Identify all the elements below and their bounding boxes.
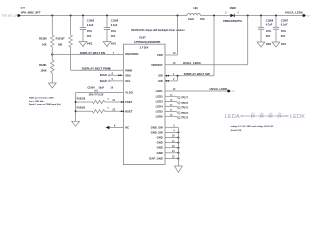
svg-text:LED5: LED5	[156, 110, 164, 114]
svg-text:25V: 25V	[281, 35, 286, 38]
note LED voltages	[231, 125, 274, 132]
svg-text:Spark 1 same as PWM input (Hz): Spark 1 same as PWM input (Hz)	[29, 103, 61, 106]
svg-text:LED6: LED6	[156, 114, 164, 118]
svg-text:LED2: LED2	[156, 94, 164, 98]
port VPH_MISC_BFT input	[2, 13, 21, 17]
svg-text:EN/VDDIO: EN/VDDIO	[125, 52, 139, 56]
svg-text:20mA / LED: 20mA / LED	[231, 129, 242, 132]
capacitor C1958 4.7uF	[258, 16, 274, 43]
svg-text:VLDO: VLDO	[125, 91, 134, 95]
svg-text:C1903: C1903	[87, 20, 95, 23]
svg-text:DISPLAY BKLT EN: DISPLAY BKLT EN	[80, 51, 105, 55]
wire R1281 to ground	[51, 73, 53, 83]
capacitor C1903 2.2uF	[80, 16, 95, 42]
svg-text:C1954: C1954	[87, 87, 95, 90]
junction rail x177 VDD	[177, 15, 179, 17]
test point TP173 on pin 18	[165, 115, 189, 120]
test point TP175 on pin 15	[165, 105, 189, 110]
svg-text:10%: 10%	[281, 30, 287, 33]
svg-text:LP55342Q-ES6NOPB: LP55342Q-ES6NOPB	[134, 40, 160, 44]
resistor R10158 0 ohm FSET	[76, 97, 124, 103]
svg-text:DISPLAY BKLT PWM: DISPLAY BKLT PWM	[82, 67, 111, 71]
junction FSET rail	[75, 101, 77, 103]
svg-text:10K: 10K	[58, 43, 63, 47]
svg-text:16V: 16V	[87, 35, 92, 38]
svg-text:0.1uF: 0.1uF	[281, 24, 288, 27]
svg-text:DISPLAY BKLT SW: DISPLAY BKLT SW	[184, 72, 210, 76]
ground under C1296	[103, 42, 111, 47]
svg-text:C1296: C1296	[111, 20, 119, 23]
ground under C1958	[257, 42, 265, 47]
svg-text:10uF: 10uF	[98, 87, 104, 90]
svg-text:4.2V: 4.2V	[21, 6, 26, 9]
svg-text:TP175: TP175	[181, 108, 188, 110]
junction GND rail y142.6	[177, 142, 179, 144]
svg-text:VBOOST: VBOOST	[151, 63, 163, 67]
svg-text:SDA: SDA	[125, 73, 131, 77]
junction rail x83	[82, 15, 84, 17]
svg-text:R10165: R10165	[77, 107, 86, 110]
capacitor C1954 10uF on VLDO	[76, 87, 124, 97]
wire DISPLAY_BKLT_EN	[52, 51, 123, 55]
svg-text:TP174: TP174	[181, 112, 188, 115]
svg-text:100K: 100K	[41, 69, 47, 73]
wire GND pin 4	[165, 130, 178, 133]
svg-text:FSET: FSET	[125, 100, 132, 104]
net short SH12C SDA	[100, 73, 124, 77]
svg-text:LEDA: LEDA	[225, 114, 240, 120]
svg-text:PMEG4005ETPH: PMEG4005ETPH	[223, 20, 242, 23]
LED D1 of string	[250, 113, 255, 118]
test point TP174 on pin 17	[165, 110, 189, 115]
wire GND pin 24	[165, 150, 178, 153]
svg-text:16V: 16V	[111, 35, 116, 38]
junction GND rail y147.7	[177, 147, 179, 149]
svg-text:2.2uF: 2.2uF	[87, 24, 94, 27]
svg-text:R10158: R10158	[77, 97, 86, 100]
svg-text:25V: 25V	[266, 35, 271, 38]
svg-text:GND: GND	[157, 146, 163, 150]
port HVGA_LEDA output	[303, 14, 311, 17]
inductor L98 10uH	[187, 7, 205, 21]
no-connect marker NC pin	[106, 126, 124, 130]
svg-text:R1281: R1281	[39, 63, 47, 67]
svg-text:LED4: LED4	[156, 104, 164, 108]
LED D4 of string	[277, 113, 282, 118]
svg-text:TP177: TP177	[181, 98, 188, 100]
junction GND rail y132.4	[177, 131, 179, 133]
svg-text:FSET pin shorted to GND: FSET pin shorted to GND	[29, 96, 54, 99]
LED D2 of string	[259, 113, 264, 118]
svg-text:LEDK: LEDK	[290, 114, 305, 120]
ground under VLDO rail	[72, 121, 80, 126]
svg-text:HVGA_LEDA: HVGA_LEDA	[285, 10, 304, 14]
resistor R10165 0 ohm RSET	[76, 107, 124, 113]
junction rail x107	[106, 15, 108, 17]
wire GND pin 16	[165, 146, 178, 148]
diode D996 PMEG4005ETPH	[223, 7, 242, 23]
SDA black marker	[118, 74, 120, 76]
svg-text:0.1uF: 0.1uF	[111, 24, 118, 27]
svg-text:0201: 0201	[281, 44, 287, 46]
svg-text:TP173: TP173	[181, 118, 188, 120]
LED string wire from LEDA	[240, 115, 250, 117]
svg-text:C1958: C1958	[266, 20, 274, 23]
wire SW node vertical	[213, 16, 215, 76]
wire GND pin 11	[165, 141, 178, 143]
svg-text:L98: L98	[193, 7, 198, 10]
capacitor C1296 0.1uF	[104, 16, 119, 42]
svg-text:HVGA_LEDA: HVGA_LEDA	[183, 61, 202, 65]
U167 IC body	[123, 44, 165, 164]
svg-text:C1957: C1957	[281, 20, 289, 23]
junction GND rail y158.5	[177, 158, 179, 160]
ground under C1903	[79, 42, 87, 47]
svg-text:2.7-36V: 2.7-36V	[140, 47, 149, 50]
wire VDD pin 10	[165, 16, 178, 56]
junction rail x276 C1957	[275, 15, 277, 17]
junction EN divider	[51, 53, 53, 55]
svg-text:VPH_MISC_BFT: VPH_MISC_BFT	[21, 10, 41, 14]
svg-text:0402: 0402	[87, 43, 93, 46]
svg-text:R10167: R10167	[56, 36, 66, 40]
junction rail x52	[51, 15, 53, 17]
junction SW pins	[177, 75, 179, 77]
svg-text:LED1: LED1	[156, 89, 164, 93]
svg-text:10%: 10%	[87, 30, 93, 33]
test point TP177 on pin 13	[165, 95, 189, 100]
port HVGA_LEDK	[227, 90, 235, 93]
svg-text:SCL: SCL	[125, 79, 131, 83]
ground under C1957	[272, 42, 280, 47]
wire SW pin 2	[165, 76, 178, 82]
svg-text:R1296: R1296	[39, 36, 47, 40]
wire GND pin 19	[165, 136, 178, 138]
ground under R1281	[48, 83, 56, 88]
junction rail x214 SW node	[213, 15, 215, 17]
wire GND pin 3	[165, 126, 178, 128]
resistor R1281 100K	[39, 60, 54, 73]
node 4.2V label	[21, 6, 26, 9]
svg-text:VDD: VDD	[157, 53, 163, 57]
svg-text:SH12C: SH12C	[100, 75, 108, 77]
wire R10167 down to PWM	[70, 47, 72, 70]
junction rail x70	[70, 15, 72, 17]
svg-text:voltage 2.7-3.3V / LED, total: voltage 2.7-3.3V / LED, total voltage 10…	[231, 125, 274, 128]
svg-text:4.7uF: 4.7uF	[266, 24, 273, 27]
wire SW pin 1 DISPLAY_BKLT_SW	[165, 72, 214, 76]
svg-text:SW: SW	[158, 79, 163, 83]
svg-text:10uH: 10uH	[188, 18, 194, 21]
svg-text:SW: SW	[158, 74, 163, 78]
svg-text:GND_SW: GND_SW	[151, 125, 163, 129]
wire GND pin 25	[165, 157, 178, 159]
resistor R10167 10K pull-up	[56, 16, 73, 48]
test point TP176 on pin 14	[165, 99, 189, 105]
svg-text:D996: D996	[230, 7, 237, 10]
junction rail x261 C1958	[260, 15, 262, 17]
wire rail inductor to diode	[200, 15, 230, 17]
svg-text:SH12C: SH12C	[100, 81, 108, 83]
LED string wire to LEDK	[282, 115, 289, 117]
svg-text:GND: GND	[157, 136, 163, 140]
net VPH_MISC_BFT label	[21, 10, 41, 14]
wire GND rail vertical	[177, 127, 179, 166]
svg-text:0201: 0201	[111, 44, 117, 46]
svg-text:U167: U167	[139, 36, 146, 40]
svg-text:GND: GND	[157, 141, 163, 145]
svg-text:20%: 20%	[89, 93, 95, 96]
wire top rail left (VPH_MISC_BFT to inductor)	[21, 15, 187, 17]
svg-text:6.3V: 6.3V	[98, 93, 103, 96]
wire DISPLAY_BKLT_PWM	[71, 67, 124, 71]
svg-text:GND: GND	[157, 151, 163, 155]
svg-text:GND_SW: GND_SW	[151, 130, 163, 134]
svg-text:0805: 0805	[266, 44, 272, 46]
junction rail x247.7 VBOOST sense	[247, 15, 249, 17]
note FSET	[29, 96, 61, 106]
svg-text:TP176: TP176	[181, 103, 188, 105]
wire VBOOST HVGA_LEDA	[165, 16, 248, 65]
junction GND rail y137.5	[177, 137, 179, 139]
svg-text:HVGA_LEDK: HVGA_LEDK	[210, 87, 229, 91]
wire R1296 to EN junction	[51, 47, 53, 60]
svg-text:RSET: RSET	[125, 109, 133, 113]
net short SH12C SCL	[100, 79, 124, 83]
svg-text:fsw = 1250 kHz: fsw = 1250 kHz	[29, 101, 44, 103]
svg-text:NC: NC	[125, 126, 129, 130]
svg-text:TOP_BLT_LP: TOP_BLT_LP	[2, 13, 18, 17]
svg-text:10%: 10%	[266, 30, 272, 33]
svg-text:DAP_GND: DAP_GND	[149, 157, 162, 161]
junction RSET rail	[75, 110, 77, 112]
wire LED1 HVGA_LEDK	[165, 87, 228, 91]
wire top rail right (diode cathode to output port)	[234, 15, 302, 17]
svg-text:LED3: LED3	[156, 100, 164, 104]
LED D3 of string	[268, 113, 273, 118]
resistor R1296 10K	[39, 16, 54, 48]
svg-text:10%: 10%	[111, 30, 117, 33]
ground under U167	[175, 166, 183, 172]
wire VLDO rail vertical	[75, 93, 77, 122]
capacitor C1957 0.1uF	[273, 16, 289, 43]
junction GND rail y152.8	[177, 152, 179, 154]
svg-text:10K: 10K	[42, 43, 47, 47]
svg-text:PWM: PWM	[125, 68, 132, 72]
